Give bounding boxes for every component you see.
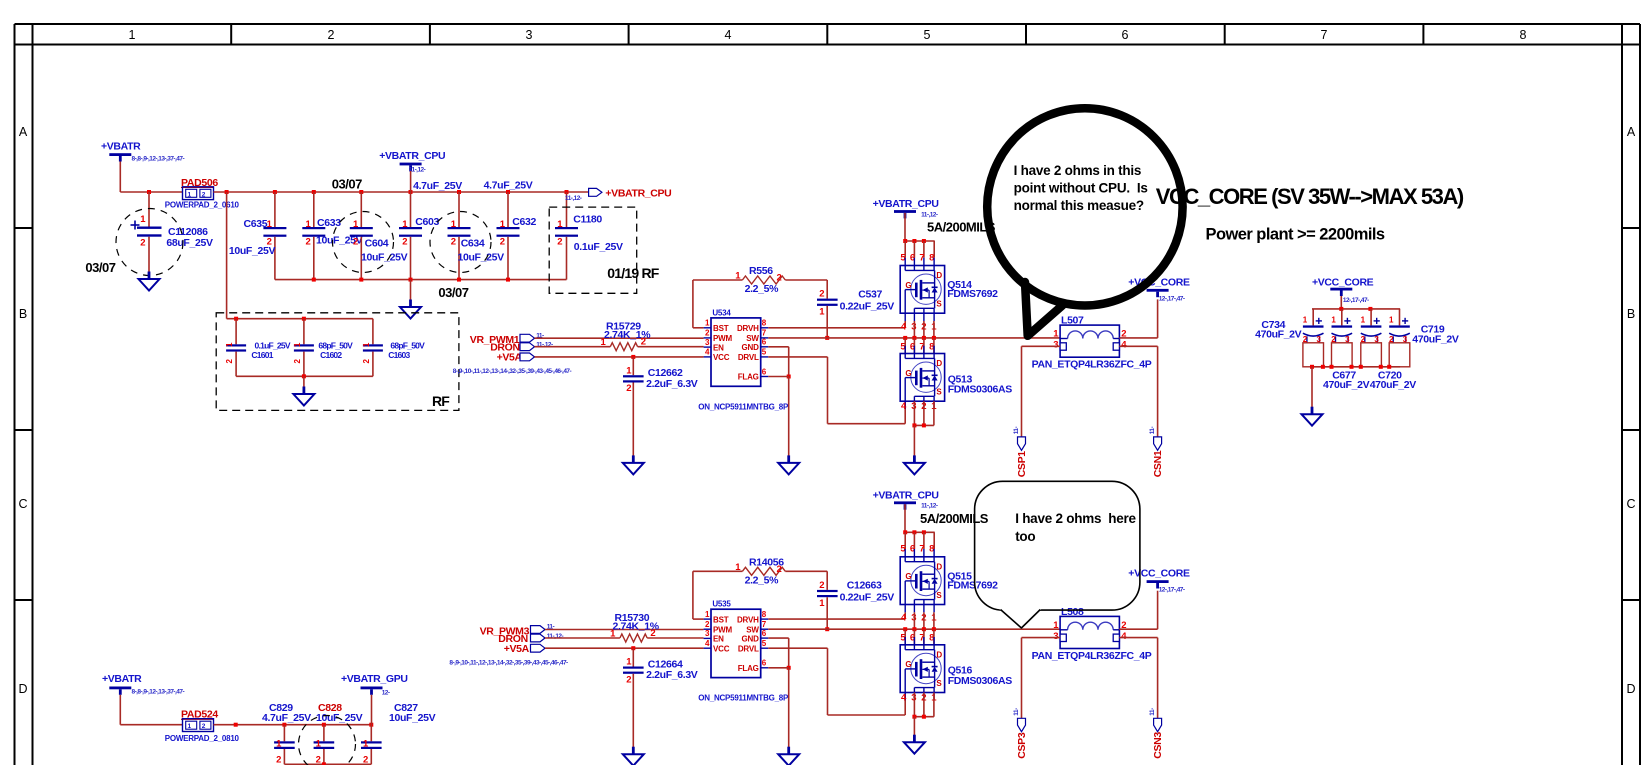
wire gnd down (788, 377, 790, 456)
wire CSN sense (1119, 637, 1157, 639)
capacitor C1180 (555, 192, 623, 280)
svg-text:1: 1 (267, 219, 273, 230)
junction (922, 239, 926, 243)
svg-text:C632: C632 (512, 216, 536, 228)
svg-text:2: 2 (557, 237, 562, 248)
svg-text:1: 1 (610, 629, 616, 640)
wire GPU down (371, 695, 373, 725)
svg-text:+V5A: +V5A (504, 643, 530, 655)
junction (912, 715, 916, 719)
svg-text:SW: SW (746, 625, 759, 634)
capacitor C827 (361, 702, 436, 765)
svg-text:D: D (1626, 682, 1635, 696)
svg-text:2.2uF_6.3V: 2.2uF_6.3V (646, 669, 698, 681)
svg-text:B: B (19, 307, 27, 321)
capacitor C12663 (817, 580, 894, 609)
pin numbers 4 3 2 1 (901, 321, 937, 332)
svg-text:1: 1 (500, 219, 506, 230)
svg-text:U534: U534 (712, 308, 731, 317)
pin labels 1 2 3 4 (1053, 620, 1127, 642)
svg-text:2: 2 (705, 620, 710, 629)
junction (922, 627, 926, 631)
connector VR_PWM (470, 334, 535, 346)
svg-text:0.1uF_25V: 0.1uF_25V (255, 340, 291, 350)
svg-text:8: 8 (1520, 28, 1527, 42)
wire VCC (545, 647, 704, 649)
svg-text:1: 1 (1303, 315, 1308, 324)
svg-text:4: 4 (705, 639, 710, 648)
svg-text:+VBATR: +VBATR (101, 141, 141, 153)
connector CSN (1154, 437, 1162, 450)
svg-text:11-,12-: 11-,12- (921, 503, 938, 510)
svg-text:R556: R556 (749, 265, 773, 277)
dashed circle C604 (333, 212, 394, 273)
svg-text:4: 4 (901, 401, 907, 412)
svg-text:+VBATR_CPU: +VBATR_CPU (873, 198, 939, 210)
svg-text:CSP1: CSP1 (1016, 451, 1028, 478)
wire bank bottom rail (275, 279, 567, 281)
svg-text:7: 7 (1321, 28, 1328, 42)
net +VBATR_CPU power symbol (873, 489, 939, 509)
junction (234, 723, 238, 727)
wires drain pins (904, 532, 906, 549)
net +VBATR_CPU power symbol (873, 198, 939, 218)
op-amp/driver U534 ON_NCP5911 (704, 308, 769, 386)
ground (1311, 407, 1314, 415)
net +VBATR power symbol (101, 141, 141, 162)
svg-text:6: 6 (762, 367, 767, 376)
svg-text:1: 1 (293, 342, 302, 347)
wire +VBATR down (119, 162, 121, 193)
svg-text:470uF_2V: 470uF_2V (1412, 333, 1459, 345)
svg-text:7: 7 (762, 620, 767, 629)
svg-text:2.2_5%: 2.2_5% (745, 574, 780, 586)
inductor L507 (1060, 325, 1119, 357)
wire to ground (1311, 367, 1313, 407)
svg-text:B: B (1627, 307, 1635, 321)
wire PWM (535, 337, 704, 339)
svg-text:DRVH: DRVH (737, 615, 759, 624)
svg-text:RF: RF (642, 265, 660, 281)
resistor R15729 (535, 346, 611, 348)
svg-text:1: 1 (735, 271, 741, 282)
pin numbers 5 6 7 8 (900, 544, 934, 555)
wire gnd down (788, 668, 790, 747)
wire drop to RF box (226, 192, 228, 319)
wire VCC (535, 356, 704, 358)
svg-text:1: 1 (353, 219, 359, 230)
connector DRON (490, 342, 534, 354)
pin numbers 5 6 7 8 (900, 633, 934, 644)
junction (369, 723, 373, 727)
svg-text:VCC: VCC (713, 644, 730, 653)
svg-text:5: 5 (762, 348, 767, 357)
svg-text:2: 2 (626, 383, 631, 394)
svg-text:6: 6 (762, 659, 767, 668)
net +VBATR power symbol (bottom) (102, 673, 142, 695)
junction (1321, 365, 1325, 369)
ground (913, 735, 916, 743)
junction (225, 190, 229, 194)
annotation balloon rounded (975, 481, 1140, 610)
svg-text:2.2_5%: 2.2_5% (745, 283, 780, 295)
svg-text:4: 4 (901, 321, 907, 332)
svg-text:GND: GND (742, 343, 760, 352)
junction (1368, 307, 1372, 311)
svg-text:4.7uF_25V: 4.7uF_25V (262, 712, 311, 724)
svg-text:VCC: VCC (713, 353, 730, 362)
junction (787, 375, 791, 379)
junction (282, 723, 286, 727)
svg-text:1: 1 (1361, 315, 1366, 324)
pin numbers 4 3 2 1 (901, 613, 937, 624)
junction (506, 278, 510, 282)
svg-text:C: C (18, 497, 27, 511)
ground below C112086 (148, 272, 151, 280)
svg-text:4: 4 (725, 28, 732, 42)
wires source pins to SW (913, 612, 915, 629)
polarized capacitor bulk C720 (1361, 309, 1382, 367)
capacitor C828 (314, 702, 363, 765)
svg-text:1: 1 (1053, 329, 1059, 340)
svg-text:DRVH: DRVH (737, 324, 759, 333)
svg-text:C: C (1626, 497, 1635, 511)
svg-text:03/07: 03/07 (438, 285, 468, 300)
svg-text:8: 8 (762, 610, 767, 619)
svg-text:2: 2 (293, 358, 302, 363)
net +VCC_CORE power symbol (1128, 568, 1190, 589)
svg-text:3: 3 (705, 629, 710, 638)
junction (409, 190, 413, 194)
wire cap to ground (632, 383, 634, 456)
capacitor C537 (817, 288, 894, 317)
svg-text:1: 1 (363, 739, 369, 750)
svg-text:4: 4 (1121, 631, 1127, 642)
svg-text:2: 2 (777, 273, 782, 284)
svg-text:8: 8 (762, 319, 767, 328)
junction (1330, 365, 1334, 369)
svg-text:normal this measue?: normal this measue? (1014, 198, 1144, 213)
svg-text:BST: BST (713, 615, 729, 624)
svg-text:1: 1 (306, 219, 312, 230)
ground (787, 747, 790, 755)
wire +VBATR horizontal to PAD506 (120, 191, 182, 193)
ground (787, 455, 790, 463)
junction (912, 530, 916, 534)
wire L out to VCC_CORE (1119, 628, 1157, 630)
svg-text:A: A (19, 125, 28, 139)
svg-text:8-,8-,9-,12-,13-,37-,47-: 8-,8-,9-,12-,13-,37-,47- (132, 156, 185, 163)
net +VBATR_GPU power symbol (341, 673, 408, 695)
wire GND pin (768, 346, 788, 348)
svg-text:12-,17-,47-: 12-,17-,47- (1159, 587, 1185, 594)
svg-text:4: 4 (901, 693, 907, 704)
svg-text:10uF_25V: 10uF_25V (229, 245, 276, 257)
svg-text:1: 1 (601, 337, 607, 348)
transistor Q515 (900, 549, 944, 612)
svg-text:1: 1 (1053, 620, 1059, 631)
resistor R556 2.2_5% (693, 279, 743, 281)
junction (302, 317, 306, 321)
wire RF bottom bus (236, 375, 373, 377)
wire +VBATR down (119, 695, 121, 725)
junction (825, 336, 829, 340)
junction (273, 190, 277, 194)
svg-text:too: too (1015, 529, 1035, 544)
pin numbers 5 6 7 8 (900, 252, 934, 263)
ground below bank (410, 280, 412, 300)
svg-text:VCC_CORE (SV 35W-->MAX 53A): VCC_CORE (SV 35W-->MAX 53A) (1156, 184, 1464, 209)
wire bst cap to SW (826, 306, 828, 338)
svg-text:EN: EN (713, 635, 724, 644)
svg-text:+V5A: +V5A (497, 352, 523, 364)
junction (912, 627, 916, 631)
junction (1310, 365, 1314, 369)
svg-text:1: 1 (1331, 315, 1336, 324)
junction (322, 762, 326, 765)
svg-text:12-: 12- (382, 690, 390, 697)
junction (903, 239, 907, 243)
wire DRVL (768, 356, 827, 358)
junction (912, 336, 916, 340)
svg-text:EN: EN (713, 343, 724, 352)
svg-text:03/07: 03/07 (85, 260, 115, 275)
junction (234, 317, 238, 321)
svg-text:1: 1 (316, 739, 322, 750)
connector out +VBATR_CPU (589, 188, 602, 196)
capacitor C634 (448, 192, 505, 280)
junction (912, 239, 916, 243)
svg-text:11-: 11- (1149, 427, 1156, 435)
ground (632, 455, 635, 463)
svg-text:CSP3: CSP3 (1016, 732, 1028, 759)
svg-text:0.22uF_25V: 0.22uF_25V (840, 300, 895, 312)
svg-text:PWM: PWM (713, 625, 732, 634)
svg-text:1: 1 (362, 342, 371, 347)
transistor Q513 (900, 346, 944, 409)
svg-text:8-,9-,10-,11-,12-,13-,14-,32-,: 8-,9-,10-,11-,12-,13-,14-,32-,35-,39-,43… (449, 660, 568, 667)
dashed box 01/19 RF (549, 207, 637, 293)
junction (1387, 365, 1391, 369)
svg-text:1: 1 (276, 739, 282, 750)
wire CSP sense (1022, 637, 1061, 639)
ground RF (303, 376, 305, 387)
connector +V5A (504, 643, 545, 655)
junction (922, 423, 926, 427)
net +VCC_CORE power symbol (1128, 276, 1190, 297)
svg-text:C1601: C1601 (251, 350, 273, 360)
pin numbers 4 3 2 1 (901, 693, 937, 704)
svg-text:11-,12-: 11-,12- (565, 195, 582, 202)
polarized capacitor bulk C734 (1303, 309, 1324, 367)
svg-text:FDMS0306AS: FDMS0306AS (948, 384, 1013, 396)
svg-text:FDMS0306AS: FDMS0306AS (948, 675, 1013, 687)
junction (506, 190, 510, 194)
connector +V5A (497, 352, 535, 364)
polarized capacitor bulk C677 (1331, 309, 1352, 367)
svg-text:4: 4 (901, 613, 907, 624)
wire source to ground (913, 717, 915, 735)
junction (787, 666, 791, 670)
wires drain pins (904, 241, 906, 258)
svg-text:PAN_ETQP4LR36ZFC_4P: PAN_ETQP4LR36ZFC_4P (1032, 359, 1152, 371)
svg-text:5A/200MILS: 5A/200MILS (920, 511, 989, 526)
junction (1359, 365, 1363, 369)
svg-text:1: 1 (705, 319, 710, 328)
capacitor C1602 (293, 319, 353, 377)
svg-text:1: 1 (1389, 315, 1394, 324)
svg-text:+VBATR_CPU: +VBATR_CPU (605, 188, 671, 200)
svg-text:1: 1 (129, 28, 136, 42)
svg-text:2: 2 (362, 358, 371, 363)
svg-text:2: 2 (402, 237, 407, 248)
junction (147, 190, 151, 194)
junction (631, 355, 635, 359)
svg-text:68pF_50V: 68pF_50V (390, 340, 425, 350)
svg-text:C603: C603 (415, 216, 439, 228)
svg-text:FLAG: FLAG (738, 373, 759, 382)
wire CSP sense (1022, 345, 1061, 347)
svg-text:SW: SW (746, 334, 759, 343)
svg-text:1: 1 (626, 365, 632, 376)
junction (322, 723, 326, 727)
svg-text:2: 2 (316, 755, 321, 765)
svg-text:+VBATR_CPU: +VBATR_CPU (379, 150, 445, 162)
svg-text:8-,9-,10-,11-,12-,13-,14-,32-,: 8-,9-,10-,11-,12-,13-,14-,32-,35-,39-,43… (453, 368, 572, 375)
svg-text:+VCC_CORE: +VCC_CORE (1312, 277, 1374, 289)
svg-text:I have 2 ohms here: I have 2 ohms here (1015, 511, 1136, 526)
svg-text:POWERPAD_2_0610: POWERPAD_2_0610 (165, 200, 240, 209)
svg-text:1: 1 (626, 657, 632, 668)
svg-text:5: 5 (924, 28, 931, 42)
wire DRVL (768, 647, 827, 649)
pin numbers 4 3 2 1 (901, 401, 937, 412)
connector DRON (498, 633, 545, 645)
wire power to drain bus (904, 213, 906, 241)
svg-text:2: 2 (819, 289, 824, 300)
svg-text:1: 1 (402, 219, 408, 230)
svg-text:11-: 11- (1013, 708, 1020, 716)
junction (932, 336, 936, 340)
svg-text:GND: GND (742, 634, 760, 643)
svg-text:11-,12-: 11-,12- (921, 211, 938, 218)
pin labels 1 2 3 4 (1053, 329, 1127, 351)
capacitor C112086 (131, 192, 213, 272)
junction (457, 190, 461, 194)
junction (932, 627, 936, 631)
capacitor C12664 (623, 648, 698, 685)
svg-text:C537: C537 (858, 288, 882, 300)
capacitor C829 (262, 702, 311, 765)
inductor L508 (1060, 616, 1119, 648)
svg-text:2.2uF_6.3V: 2.2uF_6.3V (646, 378, 698, 390)
svg-text:10uF_25V: 10uF_25V (458, 252, 505, 264)
dashed circle C112086 (116, 209, 183, 276)
junction (457, 278, 461, 282)
svg-text:0.22uF_25V: 0.22uF_25V (840, 592, 895, 604)
capacitor C635 (229, 192, 287, 280)
transistor Q514 (900, 258, 944, 321)
wire drain bus (905, 240, 935, 242)
svg-text:2: 2 (276, 755, 281, 765)
wire main top rail (214, 191, 589, 193)
svg-text:PAN_ETQP4LR36ZFC_4P: PAN_ETQP4LR36ZFC_4P (1032, 650, 1152, 662)
svg-text:PWM: PWM (713, 334, 732, 343)
connector VR_PWM (480, 625, 545, 637)
wire DRVH (768, 327, 905, 329)
svg-text:2: 2 (705, 329, 710, 338)
wire BST loop (693, 327, 704, 329)
svg-text:1: 1 (819, 598, 825, 609)
wire RF top bus (227, 318, 373, 320)
svg-text:2: 2 (353, 237, 358, 248)
wire FLAG pin (768, 667, 788, 669)
svg-text:point without CPU. Is: point without CPU. Is (1014, 181, 1148, 196)
svg-text:+VBATR: +VBATR (102, 673, 142, 685)
svg-text:0.1uF_25V: 0.1uF_25V (574, 241, 623, 253)
polarized capacitor bulk C719 (1389, 309, 1410, 367)
svg-text:2: 2 (819, 580, 824, 591)
pin numbers 5 6 7 8 (900, 341, 934, 352)
op-amp/driver U535 ON_NCP5911 (704, 600, 769, 678)
svg-text:2: 2 (306, 237, 311, 248)
wire power to drain bus (904, 504, 906, 532)
capacitor C12662 (623, 357, 698, 394)
wire caps bottom bus (284, 763, 371, 765)
svg-text:L507: L507 (1061, 315, 1084, 327)
capacitor C1601 (225, 319, 291, 377)
capacitor C1603 (362, 319, 425, 377)
wire bst cap to SW (826, 597, 828, 629)
svg-text:CSN1: CSN1 (1152, 450, 1164, 477)
resistor R15730 (545, 637, 620, 639)
junction (922, 336, 926, 340)
junction (631, 646, 635, 650)
svg-text:1: 1 (557, 219, 563, 230)
svg-text:2: 2 (777, 564, 782, 575)
svg-text:DRVL: DRVL (738, 353, 759, 362)
svg-text:C633: C633 (317, 217, 341, 229)
net +VCC_CORE power symbol (bank) (1312, 277, 1374, 297)
wire source to ground (913, 425, 915, 455)
svg-text:4.7uF_25V: 4.7uF_25V (484, 179, 533, 191)
resistor R14056 2.2_5% (693, 570, 743, 572)
junction (1379, 365, 1383, 369)
svg-text:+VBATR_GPU: +VBATR_GPU (341, 673, 408, 685)
svg-text:C635: C635 (244, 218, 268, 230)
svg-text:D: D (18, 682, 27, 696)
svg-text:2: 2 (363, 755, 368, 765)
svg-text:1: 1 (705, 610, 710, 619)
svg-text:C112086: C112086 (168, 226, 208, 238)
svg-text:470uF_2V: 470uF_2V (1255, 329, 1302, 341)
net +VBATR_CPU power symbol top (379, 150, 445, 171)
svg-text:2: 2 (650, 628, 655, 639)
svg-text:2: 2 (626, 675, 631, 686)
svg-text:2: 2 (328, 28, 335, 42)
dashed circle C828 (299, 716, 356, 765)
svg-text:1: 1 (225, 342, 234, 347)
svg-text:3: 3 (526, 28, 533, 42)
svg-text:DRVL: DRVL (738, 644, 759, 653)
wire FLAG pin (768, 376, 788, 378)
junction (922, 715, 926, 719)
junction (312, 190, 316, 194)
svg-text:BST: BST (713, 324, 729, 333)
wires source pins to SW (913, 321, 915, 338)
junction (825, 627, 829, 631)
svg-text:470uF_2V: 470uF_2V (1370, 379, 1417, 391)
